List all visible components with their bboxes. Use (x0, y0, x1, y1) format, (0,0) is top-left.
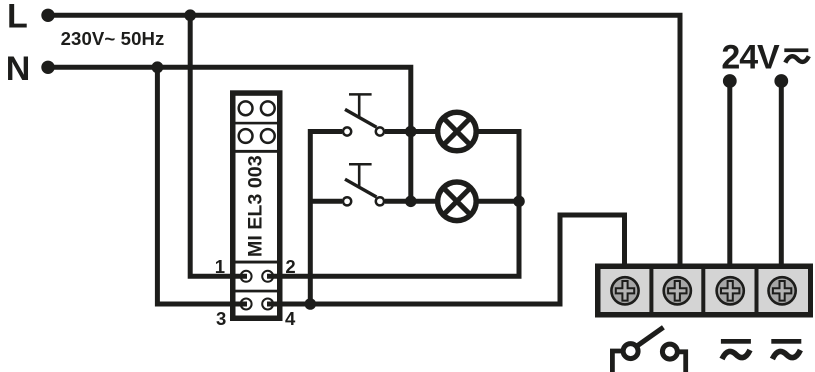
wire row2 left stub (310, 199, 342, 204)
module top contact a2 (261, 101, 275, 115)
wire 24V left lead (727, 81, 732, 265)
module top contact b2 (261, 129, 275, 143)
relay module MI EL3 003 body (230, 90, 283, 321)
module top contact b1 (239, 129, 253, 143)
wire row2 switch to lamp2 (385, 199, 439, 204)
junction row2 right bus (513, 196, 525, 208)
terminal block X1 (595, 264, 813, 318)
screw terminal C (717, 277, 744, 304)
wire row1 left with drop to terminal 4 wire (310, 132, 342, 305)
svg-text:24V: 24V (721, 39, 780, 77)
wire terminal 4 to block terminal A (267, 215, 625, 304)
wire L feed to terminal 1 (190, 15, 247, 276)
switch S2 (343, 164, 384, 205)
wire N main (48, 67, 411, 201)
svg-text:4: 4 (285, 308, 296, 329)
AC/DC symbol after 24V (784, 48, 809, 62)
junction terminal 4 wire (305, 298, 317, 310)
screw terminal D (769, 277, 796, 304)
svg-text:2: 2 (285, 256, 295, 277)
node L start (41, 9, 54, 22)
svg-text:1: 1 (215, 256, 225, 277)
svg-text:L: L (7, 0, 28, 35)
terminal ring 1 (241, 271, 252, 282)
svg-text:3: 3 (216, 308, 226, 329)
wire 24V right lead (779, 81, 784, 265)
junction row1 N bus (405, 126, 417, 138)
junction L feed (184, 9, 196, 21)
screw terminal B (664, 277, 691, 304)
lamp E2 (438, 182, 477, 221)
node 24V left (723, 74, 737, 88)
relay contact symbol below block (612, 327, 685, 372)
switch S1 (343, 94, 384, 135)
wire row1 lamp1 to terminal 2 (267, 132, 519, 277)
terminal ring 3 (241, 299, 252, 310)
AC/DC symbol below terminal C (721, 339, 751, 359)
svg-text:MI EL3 003: MI EL3 003 (244, 155, 266, 257)
junction N feed (152, 61, 164, 73)
junction row2 N bus (405, 196, 417, 208)
node N start (41, 61, 54, 74)
wire row1 switch to lamp1 (385, 129, 439, 134)
screw terminal A (611, 277, 638, 304)
module top contact a1 (239, 101, 253, 115)
svg-text:N: N (6, 50, 31, 88)
terminal ring 4 (262, 299, 273, 310)
node 24V right (774, 74, 788, 88)
wire row2 lamp2 to right bus (475, 199, 519, 204)
lamp E1 (438, 112, 477, 151)
AC/DC symbol below terminal D (771, 339, 801, 359)
wire L main (48, 15, 680, 265)
svg-text:230V~ 50Hz: 230V~ 50Hz (61, 28, 165, 49)
terminal ring 2 (262, 271, 273, 282)
wire N feed to terminal 3 (157, 67, 247, 304)
